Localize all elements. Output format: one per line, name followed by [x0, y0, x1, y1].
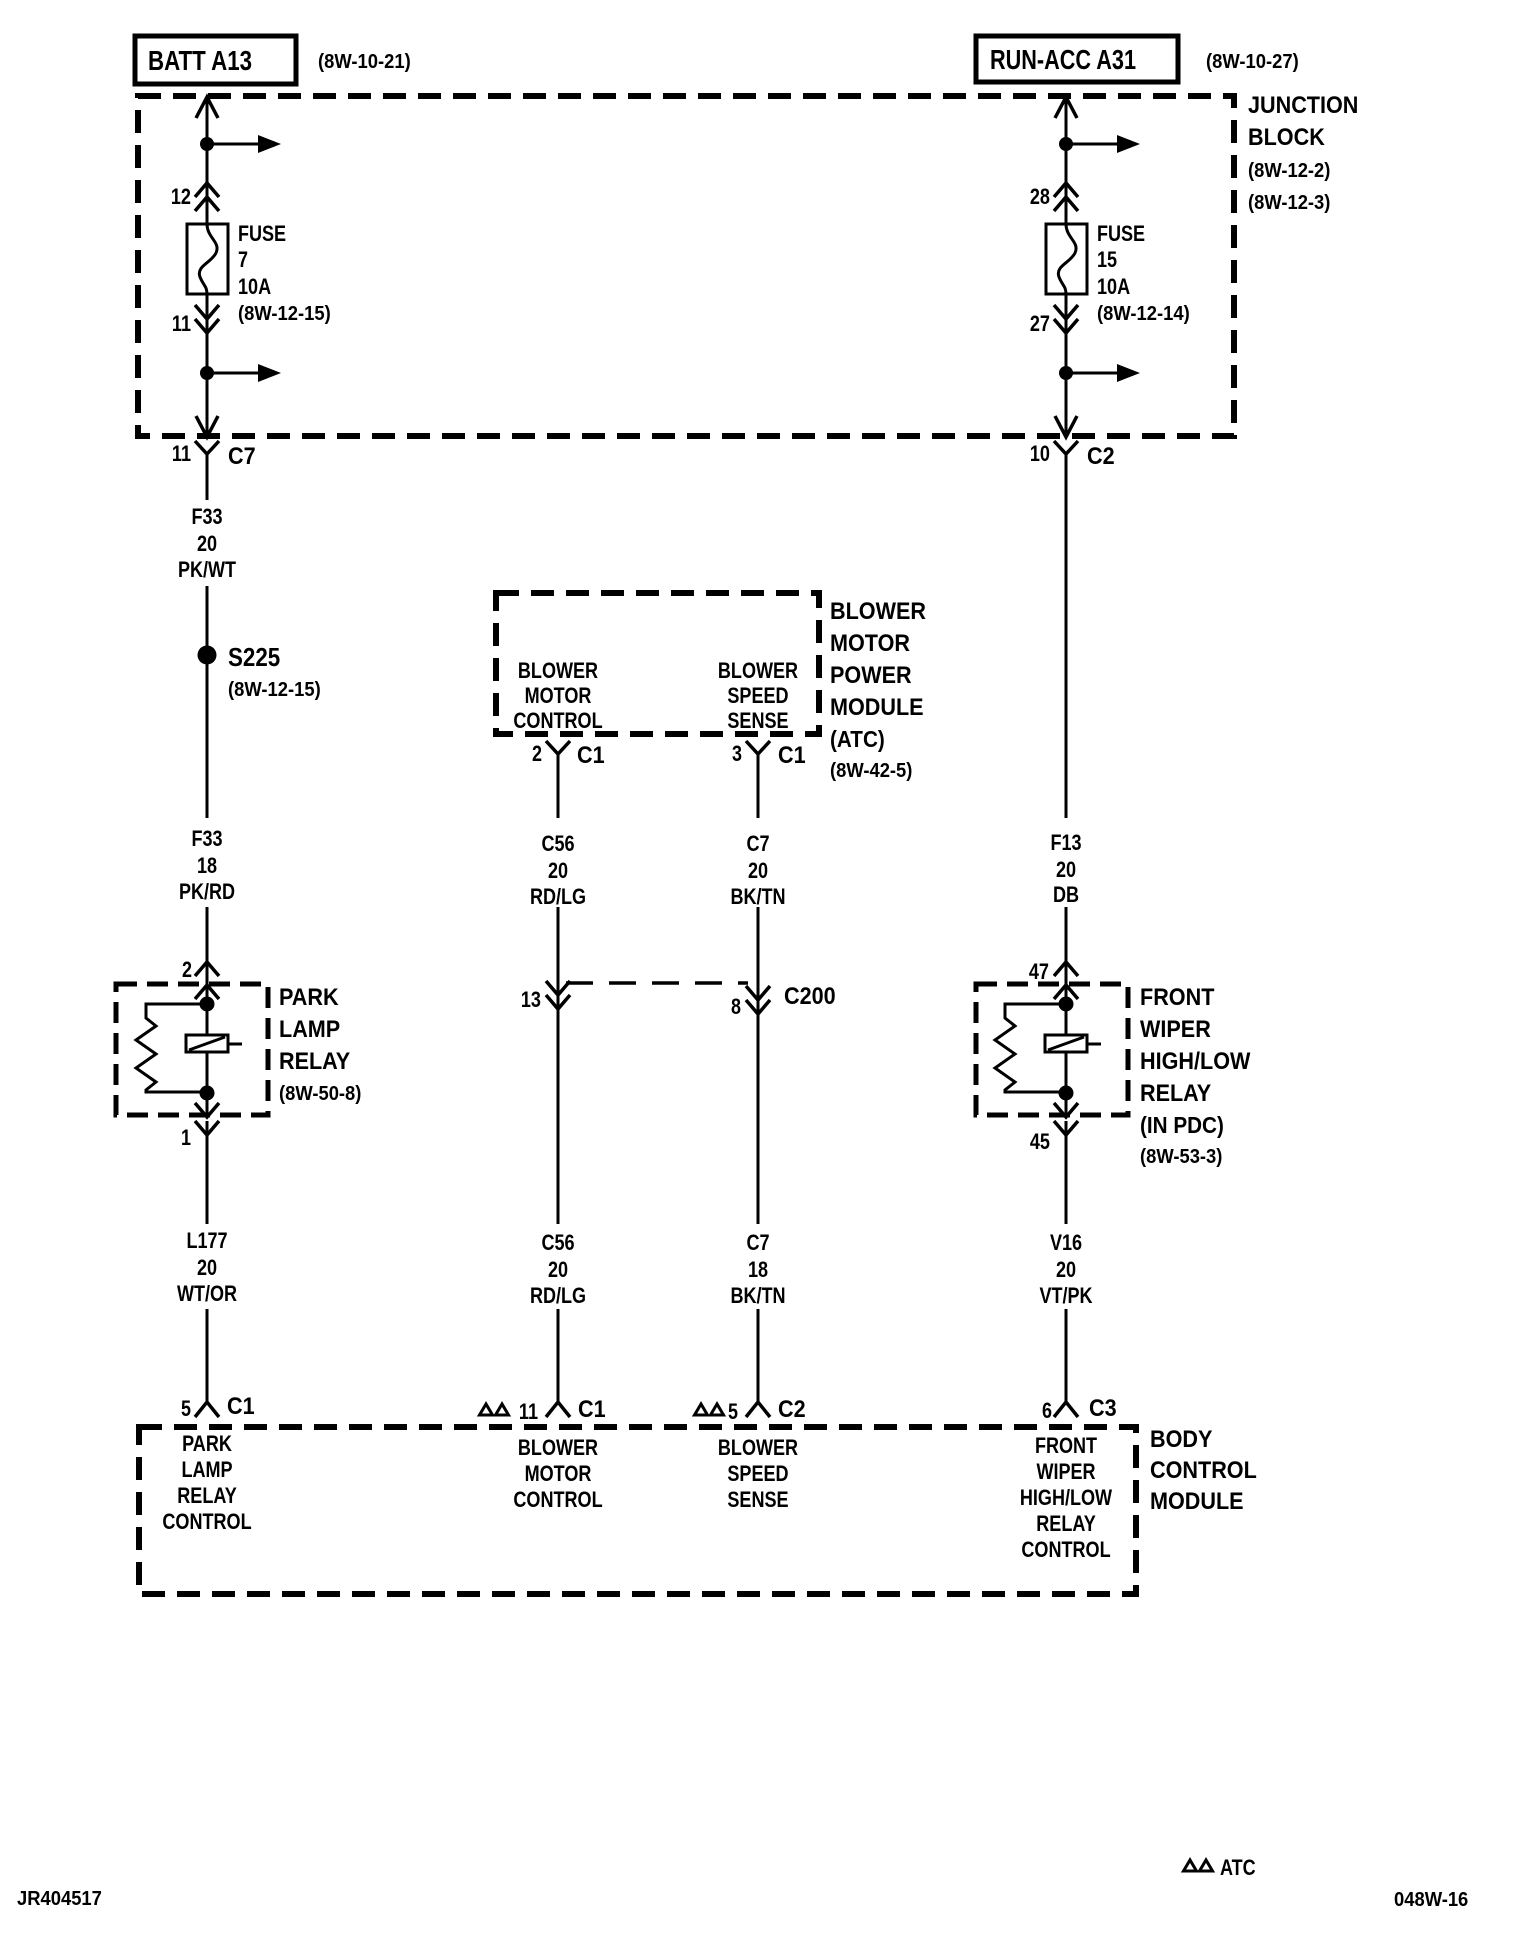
svg-text:SPEED: SPEED: [727, 1461, 788, 1486]
svg-text:20: 20: [748, 858, 768, 883]
arrow branch right (upper left): [207, 135, 281, 153]
arrow down out of junction block right: [1055, 416, 1077, 437]
svg-text:BLOWER: BLOWER: [518, 658, 598, 683]
svg-text:6: 6: [1042, 1398, 1052, 1423]
splice S225: [198, 642, 321, 701]
svg-text:18: 18: [748, 1257, 768, 1282]
relay coil node upper: [200, 997, 215, 1012]
svg-text:SENSE: SENSE: [727, 1487, 788, 1512]
node splice upper right: [1059, 137, 1073, 151]
wire label C7 18 BK/TN lower: [730, 1230, 785, 1308]
svg-text:PARK: PARK: [279, 984, 339, 1011]
svg-text:SPEED: SPEED: [727, 683, 788, 708]
svg-text:20: 20: [548, 858, 568, 883]
svg-text:MOTOR: MOTOR: [525, 1461, 592, 1486]
svg-text:CONTROL: CONTROL: [1150, 1457, 1257, 1484]
svg-text:POWER: POWER: [830, 662, 912, 689]
svg-text:C1: C1: [227, 1393, 255, 1420]
junction block label: [1248, 92, 1358, 214]
svg-text:BLOWER: BLOWER: [518, 1435, 598, 1460]
svg-text:FRONT: FRONT: [1140, 984, 1215, 1011]
park lamp relay enclosure: [116, 984, 268, 1115]
wire label L177 20 WT/OR: [177, 1228, 237, 1306]
svg-text:(8W-10-21): (8W-10-21): [318, 51, 411, 73]
reference (8W-10-21): [318, 51, 411, 73]
C200 dashed link wire: [566, 981, 748, 985]
svg-text:LAMP: LAMP: [279, 1016, 340, 1043]
svg-text:C1: C1: [577, 742, 605, 769]
wire from BATT A13 to fuse 7: [206, 98, 209, 224]
arrow up to BATT A13: [196, 97, 218, 118]
svg-text:(8W-12-15): (8W-12-15): [238, 303, 331, 325]
svg-text:10A: 10A: [238, 274, 271, 299]
wire label C7 20 BK/TN: [730, 831, 785, 909]
wire: [1065, 1121, 1068, 1224]
pin 45 chevrons: [1030, 1103, 1078, 1154]
svg-text:C200: C200: [784, 983, 836, 1010]
svg-text:FUSE: FUSE: [1097, 221, 1145, 246]
svg-text:(8W-12-2): (8W-12-2): [1248, 160, 1330, 182]
svg-text:SENSE: SENSE: [727, 708, 788, 733]
svg-text:MOTOR: MOTOR: [830, 630, 910, 657]
arrow down out of junction block left: [196, 416, 218, 437]
relay coil (front wiper): [1045, 1035, 1101, 1052]
park lamp relay control pin label: [162, 1431, 251, 1534]
wire: [1065, 907, 1068, 1035]
svg-text:5: 5: [181, 1396, 191, 1421]
svg-text:PK/WT: PK/WT: [178, 557, 237, 582]
svg-text:(8W-42-5): (8W-42-5): [830, 760, 912, 782]
svg-text:C1: C1: [778, 742, 806, 769]
svg-text:47: 47: [1029, 959, 1049, 984]
svg-text:FUSE: FUSE: [238, 221, 286, 246]
wire: [206, 454, 209, 500]
wire: [757, 907, 760, 1224]
svg-text:20: 20: [197, 1255, 217, 1280]
svg-text:BLOWER: BLOWER: [718, 1435, 798, 1460]
svg-text:C2: C2: [1087, 443, 1115, 470]
svg-text:HIGH/LOW: HIGH/LOW: [1020, 1485, 1112, 1510]
svg-text:RELAY: RELAY: [177, 1483, 237, 1508]
relay coil node lower: [200, 1086, 215, 1101]
svg-text:(8W-50-8): (8W-50-8): [279, 1083, 361, 1105]
svg-text:WIPER: WIPER: [1140, 1016, 1211, 1043]
wire: [1065, 454, 1068, 818]
svg-text:HIGH/LOW: HIGH/LOW: [1140, 1048, 1251, 1075]
svg-text:CONTROL: CONTROL: [513, 708, 602, 733]
svg-text:2: 2: [532, 741, 542, 766]
svg-text:5: 5: [728, 1399, 738, 1424]
fuse 7 label: [238, 221, 331, 325]
ATC legend: [1184, 1855, 1256, 1880]
svg-text:(8W-12-14): (8W-12-14): [1097, 303, 1190, 325]
pin 1 chevrons: [181, 1103, 219, 1150]
svg-text:F33: F33: [191, 826, 222, 851]
blower speed sense pin label (BCM): [718, 1435, 798, 1512]
arrow branch right (lower left): [207, 364, 281, 382]
front wiper relay enclosure: [976, 984, 1128, 1115]
wire from fuse 7 to connector C7: [206, 294, 209, 434]
svg-text:10: 10: [1030, 441, 1050, 466]
svg-text:VT/PK: VT/PK: [1039, 1283, 1092, 1308]
wire through wiper relay: [1065, 1052, 1068, 1117]
wire label V16 20 VT/PK: [1039, 1230, 1092, 1308]
svg-text:BLOCK: BLOCK: [1248, 124, 1325, 151]
pin 11 chevrons: [172, 305, 219, 336]
node splice lower right: [1059, 366, 1073, 380]
svg-text:12: 12: [171, 184, 191, 209]
pin 2 chevrons: [182, 957, 219, 999]
wire: [557, 754, 560, 818]
svg-text:11: 11: [172, 311, 191, 336]
svg-text:L177: L177: [186, 1228, 227, 1253]
arrow up to RUN-ACC A31: [1055, 97, 1077, 118]
svg-text:3: 3: [732, 741, 742, 766]
fuse 15 label: [1097, 221, 1190, 325]
body control module label: [1150, 1426, 1257, 1515]
wire from fuse 15 to connector C2: [1065, 294, 1068, 434]
wire label F13 20 DB: [1050, 830, 1081, 907]
relay coil (park lamp): [186, 1035, 242, 1052]
svg-text:(8W-12-3): (8W-12-3): [1248, 192, 1330, 214]
front wiper relay label: [1140, 984, 1251, 1168]
svg-text:20: 20: [1056, 1257, 1076, 1282]
relay resistor (park lamp): [136, 1004, 207, 1092]
connector C1 pin 3: [732, 741, 806, 770]
wire: [757, 1309, 760, 1402]
reference (8W-10-27): [1206, 51, 1299, 73]
svg-text:BK/TN: BK/TN: [730, 884, 785, 909]
svg-text:C7: C7: [746, 1230, 769, 1255]
wire: [206, 586, 209, 818]
svg-text:2: 2: [182, 957, 192, 982]
svg-text:20: 20: [548, 1257, 568, 1282]
svg-text:1: 1: [181, 1125, 191, 1150]
svg-text:WIPER: WIPER: [1036, 1459, 1095, 1484]
svg-text:10A: 10A: [1097, 274, 1130, 299]
blower motor power module enclosure: [496, 593, 819, 734]
svg-text:MOTOR: MOTOR: [525, 683, 592, 708]
svg-text:C2: C2: [778, 1396, 806, 1423]
connector C1 pin 5: [181, 1393, 255, 1421]
connector C200 pin 13 chevrons: [521, 981, 570, 1012]
svg-text:RD/LG: RD/LG: [530, 884, 586, 909]
arrow branch right (upper right): [1066, 135, 1140, 153]
svg-text:(8W-12-15): (8W-12-15): [228, 679, 321, 701]
connector C200 pin 8 chevrons: [731, 983, 836, 1019]
svg-text:RELAY: RELAY: [279, 1048, 350, 1075]
svg-text:JR404517: JR404517: [17, 1888, 102, 1910]
svg-text:20: 20: [197, 531, 217, 556]
wire: [557, 907, 560, 1224]
blower motor control pin label: [513, 658, 602, 733]
connector C7 pin 11: [172, 441, 256, 470]
front wiper relay control pin label (BCM): [1020, 1433, 1112, 1562]
svg-text:11: 11: [172, 441, 191, 466]
body control module enclosure: [139, 1427, 1136, 1594]
svg-text:20: 20: [1056, 857, 1076, 882]
svg-text:JUNCTION: JUNCTION: [1248, 92, 1358, 119]
svg-text:8: 8: [731, 994, 741, 1019]
svg-text:WT/OR: WT/OR: [177, 1281, 237, 1306]
svg-text:LAMP: LAMP: [181, 1457, 232, 1482]
wire label C56 20 RD/LG lower: [530, 1230, 586, 1308]
blower motor power module label: [830, 598, 926, 782]
svg-text:RD/LG: RD/LG: [530, 1283, 586, 1308]
svg-text:C7: C7: [746, 831, 769, 856]
fuse 7: [187, 224, 228, 294]
wire label C56 20 RD/LG: [530, 831, 586, 909]
svg-text:27: 27: [1030, 311, 1050, 336]
wire: [557, 1309, 560, 1402]
svg-text:V16: V16: [1050, 1230, 1082, 1255]
svg-text:MODULE: MODULE: [830, 694, 924, 721]
svg-text:C1: C1: [578, 1396, 606, 1423]
wire from RUN-ACC A31 to fuse 15: [1065, 98, 1068, 224]
connector C2 pin 10: [1030, 441, 1115, 470]
pin 12 chevrons: [171, 183, 219, 211]
svg-text:(8W-10-27): (8W-10-27): [1206, 51, 1299, 73]
wire: [1065, 1309, 1068, 1402]
svg-text:S225: S225: [228, 642, 280, 672]
svg-text:CONTROL: CONTROL: [513, 1487, 602, 1512]
svg-text:CONTROL: CONTROL: [162, 1509, 251, 1534]
svg-text:7: 7: [238, 247, 248, 272]
svg-text:C3: C3: [1089, 1395, 1117, 1422]
relay coil node lower (wiper): [1059, 1086, 1074, 1101]
svg-text:ATC: ATC: [1220, 1855, 1256, 1880]
svg-text:18: 18: [197, 853, 217, 878]
svg-text:C7: C7: [228, 443, 256, 470]
svg-text:C56: C56: [541, 831, 574, 856]
node splice lower left: [200, 366, 214, 380]
svg-text:(8W-53-3): (8W-53-3): [1140, 1146, 1222, 1168]
svg-text:BODY: BODY: [1150, 1426, 1212, 1453]
svg-text:RUN-ACC A31: RUN-ACC A31: [990, 44, 1136, 75]
wire: [206, 1309, 209, 1402]
fuse 15: [1046, 224, 1087, 294]
park lamp relay label: [279, 984, 361, 1105]
svg-text:RELAY: RELAY: [1140, 1080, 1211, 1107]
svg-text:F13: F13: [1050, 830, 1081, 855]
wire label F33 18 PK/RD: [179, 826, 235, 904]
wire label F33 20 PK/WT: [178, 504, 237, 582]
svg-text:DB: DB: [1053, 882, 1079, 907]
pin 27 chevrons: [1030, 305, 1078, 336]
svg-text:CONTROL: CONTROL: [1021, 1537, 1110, 1562]
svg-text:PK/RD: PK/RD: [179, 879, 235, 904]
svg-text:(ATC): (ATC): [830, 726, 885, 752]
footer drawing number 048W-16: [1394, 1889, 1468, 1911]
node splice upper left: [200, 137, 214, 151]
svg-text:BLOWER: BLOWER: [718, 658, 798, 683]
svg-text:15: 15: [1097, 247, 1117, 272]
arrow branch right (lower right): [1066, 364, 1140, 382]
connector C3 pin 6: [1042, 1395, 1117, 1423]
wire: [206, 907, 209, 1035]
connector C2 pin 5 (ATC): [695, 1396, 806, 1424]
svg-text:MODULE: MODULE: [1150, 1488, 1244, 1515]
relay resistor (front wiper): [995, 1004, 1066, 1092]
power feed box RUN-ACC A31: [976, 36, 1178, 82]
blower motor control pin label (BCM): [513, 1435, 602, 1512]
svg-text:F33: F33: [191, 504, 222, 529]
pin 28 chevrons: [1030, 183, 1078, 211]
blower speed sense pin label: [718, 658, 798, 733]
svg-text:RELAY: RELAY: [1036, 1511, 1096, 1536]
wire: [757, 754, 760, 818]
svg-text:C56: C56: [541, 1230, 574, 1255]
connector C1 pin 2: [532, 741, 605, 770]
wire through relay: [206, 1052, 209, 1117]
wire: [206, 1121, 209, 1224]
svg-text:BK/TN: BK/TN: [730, 1283, 785, 1308]
power feed box BATT A13: [135, 36, 296, 84]
svg-text:BATT A13: BATT A13: [148, 45, 252, 76]
pin 47 chevrons: [1029, 959, 1078, 999]
relay coil node upper (wiper): [1059, 997, 1074, 1012]
svg-text:048W-16: 048W-16: [1394, 1889, 1468, 1911]
svg-text:(IN PDC): (IN PDC): [1140, 1112, 1224, 1138]
svg-text:13: 13: [521, 987, 541, 1012]
connector C1 pin 11 (ATC): [480, 1396, 606, 1424]
junction block enclosure: [138, 96, 1234, 436]
svg-text:45: 45: [1030, 1129, 1050, 1154]
svg-text:PARK: PARK: [182, 1431, 232, 1456]
svg-text:28: 28: [1030, 184, 1050, 209]
svg-text:11: 11: [519, 1399, 538, 1424]
svg-text:FRONT: FRONT: [1035, 1433, 1098, 1458]
footer sheet id JR404517: [17, 1888, 102, 1910]
svg-text:BLOWER: BLOWER: [830, 598, 926, 625]
